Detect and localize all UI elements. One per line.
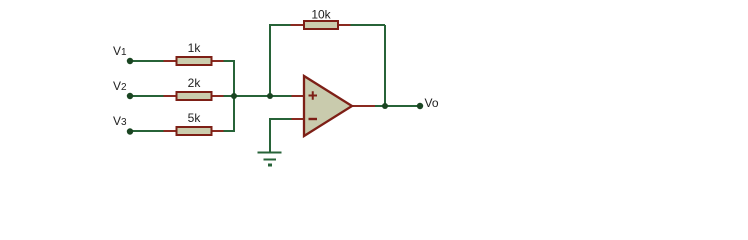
ground xyxy=(258,153,282,166)
wire V1 to R1 xyxy=(130,60,165,62)
junction dot summing node xyxy=(231,93,237,99)
wire R1 to bus xyxy=(224,60,236,62)
resistor R3 body xyxy=(177,127,212,135)
op-amp minus mark xyxy=(309,118,318,120)
pin Rf right xyxy=(338,24,352,26)
wire feedback left vertical xyxy=(269,25,271,96)
svg-text:10k: 10k xyxy=(311,8,331,22)
pin U1 plus xyxy=(292,95,305,97)
wire V2 to R2 xyxy=(130,95,165,97)
op-amp U1 body xyxy=(304,76,352,136)
terminal dot V2 xyxy=(127,93,133,99)
pin U1 output xyxy=(351,105,376,107)
resistor R1 body xyxy=(177,57,212,65)
svg-text:1k: 1k xyxy=(188,41,202,55)
svg-text:2k: 2k xyxy=(188,76,202,90)
op-amp plus mark xyxy=(309,91,318,100)
pin R1 left xyxy=(164,60,177,62)
svg-text:V3: V3 xyxy=(113,114,127,128)
wire feedback top right xyxy=(351,24,386,26)
wire R3 to bus xyxy=(224,130,236,132)
svg-text:V1: V1 xyxy=(113,44,127,58)
resistor Rf body xyxy=(304,21,338,29)
svg-text:V2: V2 xyxy=(113,79,127,93)
wire output to Vo xyxy=(375,105,420,107)
pin Rf left xyxy=(291,24,305,26)
wire feedback top left xyxy=(269,24,292,26)
terminal dot V1 xyxy=(127,58,133,64)
wire bus vertical xyxy=(233,62,235,131)
svg-text:Vo: Vo xyxy=(425,96,439,110)
wire minus input to ground corner xyxy=(270,119,293,152)
pin R2 left xyxy=(164,95,177,97)
pin R1 right xyxy=(211,60,225,62)
junction dot output xyxy=(382,103,388,109)
pin R3 right xyxy=(211,130,225,132)
svg-text:5k: 5k xyxy=(188,111,202,125)
wire V3 to R3 xyxy=(130,130,165,132)
terminal dot Vo xyxy=(417,103,423,109)
resistor R2 body xyxy=(177,92,212,100)
pin U1 minus xyxy=(292,118,305,120)
wire feedback right vertical xyxy=(384,25,386,106)
wire R2 to opamp + input xyxy=(224,95,293,97)
pin R2 right xyxy=(211,95,225,97)
terminal dot V3 xyxy=(127,128,133,134)
pin R3 left xyxy=(164,130,177,132)
junction dot feedback tap xyxy=(267,93,273,99)
